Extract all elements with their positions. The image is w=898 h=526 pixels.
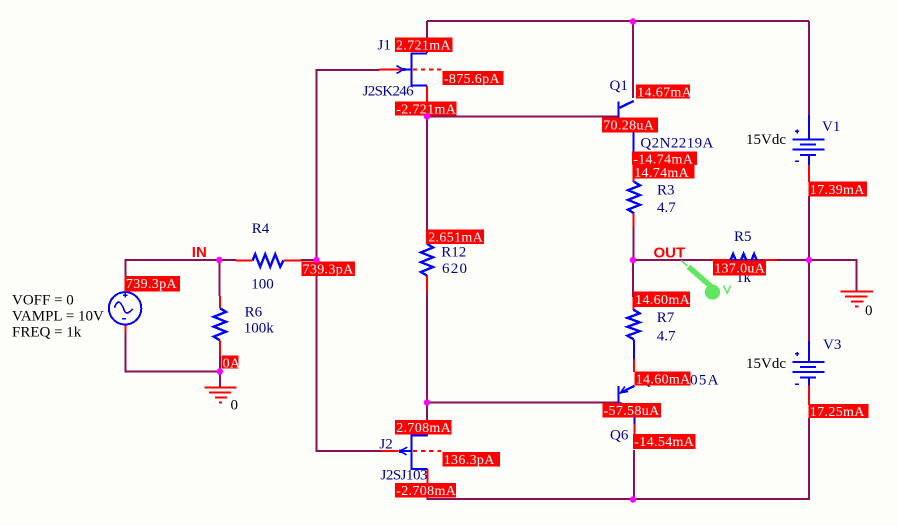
svg-text:OUT: OUT — [654, 245, 686, 262]
svg-text:15Vdc: 15Vdc — [746, 132, 786, 148]
pin stub R6 top — [219, 296, 221, 308]
jfet J1 source lead — [410, 85, 427, 87]
current label 2.651mA (R12) — [427, 229, 484, 245]
wire R3 bottom to OUT — [633, 226, 635, 260]
battery V3 minus — [795, 383, 799, 385]
dashed gate line J2 — [413, 450, 441, 452]
pin stub R4 left — [236, 260, 253, 262]
svg-text:-2.708mA: -2.708mA — [396, 484, 457, 499]
svg-text:739.3pA: 739.3pA — [303, 263, 355, 278]
svg-text:14.67mA: 14.67mA — [637, 86, 692, 101]
wire ground stub left — [219, 372, 221, 388]
pin stub Q1 emitter lower — [633, 152, 635, 182]
pin stub J2 drain — [426, 420, 428, 436]
svg-text:Q2N2219A: Q2N2219A — [640, 136, 713, 152]
current label 14.60mA (Q6 emitter) — [635, 371, 692, 387]
pin stub V2 bottom — [125, 324, 127, 332]
source V2 plus — [123, 293, 127, 297]
ground left line1 — [204, 387, 236, 389]
transistor Q1 collector diagonal — [620, 101, 634, 108]
wire R7 bottom blue — [633, 339, 635, 359]
current label -14.74mA (Q1 emitter) — [632, 151, 697, 167]
wire Q6 collector to bottom — [633, 450, 635, 500]
resistor R3 — [628, 182, 640, 214]
transistor Q1 base bar — [618, 101, 620, 125]
transistor Q1 emitter diagonal — [620, 119, 634, 126]
wire right column upper — [808, 21, 810, 116]
battery V1 plate3 — [793, 148, 825, 150]
jfet J1 channel — [410, 53, 412, 86]
wire Q1 collector — [632, 21, 634, 98]
svg-text:2.708mA: 2.708mA — [396, 421, 451, 436]
current label -2.721mA (J1 source) — [395, 102, 457, 118]
svg-text:620: 620 — [442, 261, 467, 277]
svg-text:J2SK246: J2SK246 — [363, 84, 415, 100]
jfet J2 channel — [410, 435, 412, 470]
svg-text:14.60mA: 14.60mA — [635, 293, 690, 308]
svg-text:R7: R7 — [657, 310, 675, 326]
svg-text:137.0uA: 137.0uA — [714, 262, 766, 277]
pin stub J1 source — [426, 86, 428, 116]
svg-text:R12: R12 — [441, 245, 466, 261]
wire mid column to R12 — [426, 117, 428, 231]
pin stub J2 gate — [382, 450, 399, 452]
resistor R5 — [731, 254, 763, 266]
junction node V2 bottom — [217, 368, 223, 374]
pin stub V2 top — [125, 278, 127, 293]
ground left line4 — [219, 402, 222, 404]
junction node J1 source — [424, 113, 430, 119]
current label 2.721mA (J1 drain) — [395, 38, 453, 54]
wire J1 drain up — [426, 21, 428, 38]
wire R6 bottom to node — [219, 355, 221, 372]
transistor Q6 base bar — [618, 386, 620, 410]
svg-text:Q6: Q6 — [610, 428, 629, 444]
pin stub V3 bottom — [808, 385, 810, 405]
pin stub R7 bottom lower — [633, 359, 635, 372]
svg-text:14.74mA: 14.74mA — [634, 166, 689, 181]
battery V3 plate4 — [800, 377, 816, 379]
wire bottom rail — [427, 498, 809, 500]
svg-text:2.721mA: 2.721mA — [396, 39, 451, 54]
svg-text:0A: 0A — [223, 357, 241, 372]
svg-text:-14.54mA: -14.54mA — [634, 435, 695, 450]
resistor R6 — [214, 308, 226, 340]
ground left line2 — [209, 392, 231, 394]
wire R6 top — [218, 260, 220, 296]
current label 14.60mA (R7 top) — [634, 292, 691, 308]
wire OUT to R7 — [632, 260, 634, 297]
svg-text:V3: V3 — [823, 337, 841, 353]
resistor R4 — [253, 254, 284, 267]
probe marker V — [681, 261, 688, 267]
pin stub J1 gate — [379, 69, 402, 71]
svg-text:Q1: Q1 — [610, 78, 628, 94]
svg-text:VAMPL = 10V: VAMPL = 10V — [12, 309, 104, 325]
wire ground branch right — [809, 260, 857, 292]
junction node top — [630, 18, 636, 24]
battery V1 lead top — [808, 115, 810, 140]
jfet J2 drain lead — [410, 435, 427, 437]
arrow J2 gate — [399, 449, 402, 452]
current label 739.3pA (V2) — [125, 276, 181, 292]
current label 14.74mA (R3 top) — [633, 165, 695, 181]
svg-text:FREQ = 1k: FREQ = 1k — [12, 325, 82, 341]
wire J2 source to bottom — [427, 495, 429, 500]
pin stub R5 left — [712, 259, 731, 261]
pin stub R4 right — [283, 260, 301, 262]
wire right column lower — [808, 418, 810, 500]
pin stub R7 top — [632, 297, 634, 310]
wire J1 gate horizontal — [317, 69, 380, 71]
pin stub R5 right — [763, 259, 777, 261]
wire V2 top — [126, 259, 220, 261]
current label 739.3pA (R4) — [301, 261, 355, 277]
svg-text:17.39mA: 17.39mA — [810, 183, 865, 198]
dashed gate line J1 — [413, 69, 441, 71]
current label -14.54mA (Q6 collector) — [633, 434, 696, 450]
pin stub Q6 collector lower — [634, 424, 636, 436]
svg-text:70.28uA: 70.28uA — [603, 119, 655, 134]
svg-text:-875.6pA: -875.6pA — [444, 72, 501, 87]
transistor Q6 emitter diagonal — [620, 386, 635, 393]
svg-text:4.7: 4.7 — [657, 329, 676, 345]
battery V1 lead bottom — [808, 155, 810, 165]
svg-text:14.60mA: 14.60mA — [636, 373, 691, 388]
battery V3 plate1 — [793, 361, 825, 363]
current label 17.25mA (V3) — [809, 404, 869, 420]
wire V2 left upper — [125, 259, 127, 278]
resistor R12 — [421, 244, 433, 276]
battery V1 plate1 — [793, 138, 825, 140]
battery V1 plate4 — [800, 154, 816, 156]
pin stub J1 drain — [426, 38, 428, 53]
svg-text:R4: R4 — [252, 221, 270, 237]
wire R4 to gate node — [301, 259, 317, 261]
svg-text:17.25mA: 17.25mA — [810, 405, 865, 420]
battery V3 plate3 — [793, 371, 825, 373]
current label 137.0uA (R5) — [713, 260, 766, 276]
source V2 sine — [115, 302, 133, 313]
svg-text:J1: J1 — [378, 38, 391, 54]
svg-text:J2: J2 — [379, 437, 392, 453]
battery V3 lead top — [808, 341, 810, 362]
ground left line3 — [215, 397, 227, 399]
wire V2 bottom loop — [126, 332, 220, 372]
battery V3 plus — [795, 352, 799, 356]
ground right line4 — [855, 306, 858, 308]
pin stub Q6 emitter top — [633, 352, 635, 372]
ground right line1 — [841, 291, 873, 293]
current label 17.39mA (V1) — [809, 182, 868, 198]
junction node bottom — [630, 496, 636, 502]
wire OUT rail — [633, 259, 809, 261]
battery V3 lead bottom — [808, 378, 810, 386]
battery V1 plus — [795, 129, 799, 133]
svg-text:0: 0 — [865, 303, 873, 319]
battery V1 minus — [795, 160, 799, 162]
wire J2 drain upper — [426, 403, 428, 421]
current label 2.708mA (J2 drain) — [395, 420, 452, 436]
current label 70.28uA (Q1 base) — [602, 118, 658, 134]
source V2 circle — [109, 292, 141, 324]
pin stub R6 bottom — [219, 340, 221, 355]
svg-text:-57.58uA: -57.58uA — [604, 404, 661, 419]
junction node gates — [313, 257, 319, 263]
arrow Q6 emitter — [621, 387, 629, 393]
svg-text:R6: R6 — [245, 305, 263, 321]
source V2 minus — [122, 318, 126, 320]
jfet J2 source lead — [410, 468, 427, 470]
jfet J1 drain lead — [410, 52, 427, 54]
wire R12 bottom column — [426, 292, 428, 404]
svg-text:15Vdc: 15Vdc — [746, 356, 786, 372]
pin stub J2 source — [427, 469, 429, 496]
wire gates vertical — [316, 69, 318, 452]
svg-text:VOFF = 0: VOFF = 0 — [12, 293, 74, 309]
junction node OUT right — [806, 257, 812, 263]
battery V1 plate2 — [800, 143, 816, 145]
current label 0A (R6) — [221, 355, 241, 371]
svg-text:739.3pA: 739.3pA — [126, 277, 178, 292]
wire top rail — [427, 20, 809, 22]
svg-text:2.651mA: 2.651mA — [428, 231, 483, 246]
svg-text:100: 100 — [251, 277, 274, 293]
battery V3 plate2 — [800, 366, 816, 368]
wire right column mid — [808, 196, 810, 341]
wire base rail Q6 — [427, 402, 618, 404]
pin stub R3 bottom — [633, 213, 635, 226]
wire Q6 collector blue — [634, 411, 636, 425]
junction node OUT left — [630, 257, 636, 263]
svg-text:100k: 100k — [244, 321, 274, 337]
svg-text:IN: IN — [192, 244, 207, 261]
resistor R7 — [627, 310, 639, 340]
ground right line3 — [851, 301, 863, 303]
junction node J2 drain — [424, 399, 430, 405]
current label -2.708mA (J2 source) — [395, 483, 457, 499]
current label -875.6pA (J1 gate) — [443, 71, 504, 87]
pin stub R3 top — [633, 170, 635, 182]
pin stub V1 bottom — [808, 164, 810, 182]
svg-text:136.3pA: 136.3pA — [444, 453, 496, 468]
wire base rail Q1 — [427, 116, 618, 118]
pin stub R12 top — [426, 230, 428, 244]
svg-text:V1: V1 — [822, 119, 840, 135]
wire IN to R4 — [219, 259, 236, 261]
junction node IN — [216, 257, 222, 263]
svg-text:R5: R5 — [734, 229, 752, 245]
arrow J1 gate — [402, 68, 405, 71]
pin stub R12 bottom — [426, 276, 428, 292]
wire J2 gate horizontal — [317, 450, 382, 452]
current label -57.58uA (Q6 base) — [602, 403, 661, 419]
current label 14.67mA (Q1 collector) — [636, 85, 693, 101]
svg-text:0: 0 — [231, 398, 239, 414]
transistor Q6 collector diagonal — [620, 403, 635, 411]
ground right line2 — [845, 296, 867, 298]
svg-text:4.7: 4.7 — [657, 200, 676, 216]
svg-text:J2SJ103: J2SJ103 — [381, 468, 428, 484]
svg-text:R3: R3 — [657, 183, 675, 199]
wire Q1 emitter blue — [633, 125, 635, 152]
current label 136.3pA (J2 gate) — [443, 452, 501, 468]
